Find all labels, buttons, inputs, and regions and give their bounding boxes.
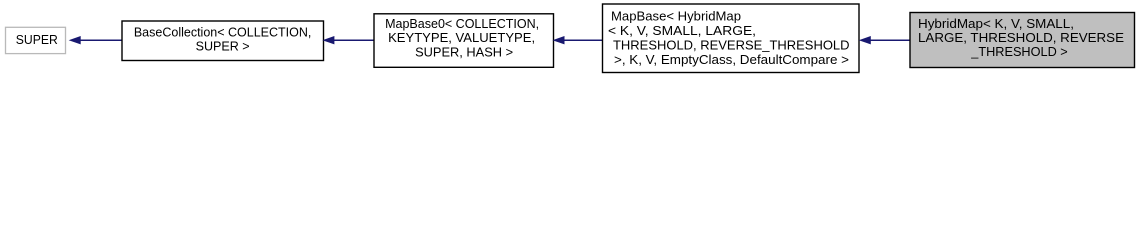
svg-text:HybridMap< K, V, SMALL,: HybridMap< K, V, SMALL, [918, 16, 1074, 31]
svg-text:THRESHOLD, REVERSE_THRESHOLD: THRESHOLD, REVERSE_THRESHOLD [613, 37, 850, 52]
node BaseCollection< COLLECTION, SUPER > [122, 21, 324, 61]
svg-text:SUPER, HASH >: SUPER, HASH > [415, 44, 513, 59]
node SUPER [6, 27, 66, 53]
svg-text:SUPER >: SUPER > [196, 39, 250, 54]
node HybridMap< K, V, SMALL, LARGE, THRESHOLD, REVERSE_THRESHOLD > (current, grey) [910, 13, 1135, 68]
svg-text:SUPER: SUPER [16, 32, 58, 47]
svg-text:>, K, V, EmptyClass, DefaultCo: >, K, V, EmptyClass, DefaultCompare > [614, 52, 849, 67]
edge arrow MapBase0 <- MapBase [554, 37, 603, 44]
edge arrow MapBase <- HybridMap [860, 37, 910, 44]
node MapBase< HybridMap< K, V, SMALL, LARGE, THRESHOLD, REVERSE_THRESHOLD >, K, V, EmptyClass, DefaultCompare > [603, 4, 860, 73]
svg-text:MapBase0< COLLECTION,: MapBase0< COLLECTION, [385, 16, 539, 31]
svg-text:MapBase< HybridMap: MapBase< HybridMap [611, 9, 741, 24]
svg-text:_THRESHOLD >: _THRESHOLD > [970, 44, 1068, 59]
svg-text:LARGE, THRESHOLD, REVERSE: LARGE, THRESHOLD, REVERSE [918, 30, 1124, 45]
svg-text:< K, V, SMALL, LARGE,: < K, V, SMALL, LARGE, [608, 23, 756, 38]
edge arrow SUPER <- BaseCollection [70, 37, 122, 44]
edge arrow BaseCollection <- MapBase0 [324, 37, 374, 44]
svg-text:KEYTYPE, VALUETYPE,: KEYTYPE, VALUETYPE, [388, 30, 535, 45]
node MapBase0< COLLECTION, KEYTYPE, VALUETYPE, SUPER, HASH > [374, 14, 554, 68]
svg-text:BaseCollection< COLLECTION,: BaseCollection< COLLECTION, [134, 24, 312, 39]
